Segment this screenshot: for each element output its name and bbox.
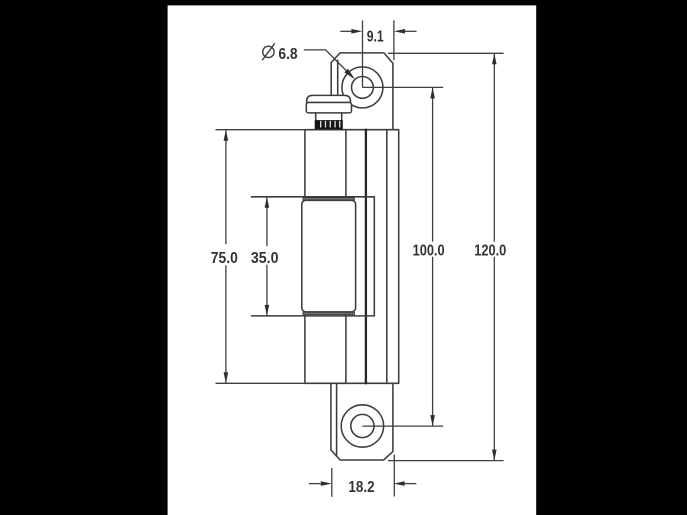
arrowhead 35.0 bottom xyxy=(265,305,270,316)
arrowhead 100.0 bottom xyxy=(430,415,435,426)
dim 9.1 right extension line xyxy=(393,20,395,60)
knob cap dome xyxy=(307,95,351,102)
arrowhead 75.0 bottom xyxy=(224,372,229,383)
top lug inner edge xyxy=(337,60,339,95)
arrowhead 120.0 bottom xyxy=(492,450,497,461)
arrowhead 75.0 top xyxy=(224,130,229,141)
bottom lug outline xyxy=(331,383,393,460)
svg-text:9.1: 9.1 xyxy=(367,28,384,45)
dim 120.0 bottom extension line xyxy=(388,460,504,462)
block bottom elastomer strip xyxy=(303,312,354,315)
plate dark edge line xyxy=(365,130,367,384)
dim 100.0 line xyxy=(432,87,434,426)
dim 120.0 top extension line xyxy=(388,52,504,54)
block top elastomer strip xyxy=(303,198,354,201)
middle block xyxy=(302,200,356,312)
dim 9.1 left arrow xyxy=(340,30,352,32)
block bottom edge with 35.0 extension xyxy=(252,315,375,317)
arrowhead 18.2 left xyxy=(321,481,332,486)
svg-text:6.8: 6.8 xyxy=(278,46,297,63)
knob neck left xyxy=(315,113,317,120)
plate fold line xyxy=(386,130,388,384)
leader line for diameter 6.8 xyxy=(304,50,353,78)
top lug outline xyxy=(331,53,393,130)
dim 75.0 bottom extension line xyxy=(216,382,305,384)
knob cap brim xyxy=(306,103,351,113)
knob neck right xyxy=(341,113,343,120)
dim 18.2 left extension line xyxy=(331,468,333,497)
arrowhead 18.2 right xyxy=(394,481,405,486)
top hole inner circle xyxy=(352,77,374,99)
svg-text:35.0: 35.0 xyxy=(251,250,279,267)
block top edge with 35.0 extension xyxy=(252,196,375,198)
dim 75.0 top extension line xyxy=(216,129,305,131)
bottom hole outer circle xyxy=(341,405,383,447)
arrowhead 9.1 left xyxy=(351,29,362,34)
cylinder right edge xyxy=(345,130,347,384)
diameter symbol circle xyxy=(263,46,274,57)
knurled adjuster ring xyxy=(315,120,343,129)
arrowhead 35.0 top xyxy=(265,197,270,208)
svg-text:75.0: 75.0 xyxy=(211,250,238,267)
dim 35.0 line xyxy=(266,197,268,316)
svg-text:18.2: 18.2 xyxy=(348,479,374,496)
block zone right edge xyxy=(373,197,375,316)
dim 100.0 top extension line xyxy=(362,86,443,88)
dim 9.1 left extension line xyxy=(362,20,364,87)
arrowhead 9.1 right xyxy=(394,29,405,34)
svg-text:100.0: 100.0 xyxy=(413,243,445,260)
main body plate outline xyxy=(305,130,399,384)
arrowhead 100.0 top xyxy=(430,87,435,98)
dim 18.2 left arrow shaft xyxy=(309,483,321,485)
diameter symbol slash xyxy=(262,43,275,60)
dim 120.0 line xyxy=(493,53,495,460)
bottom hole inner circle xyxy=(351,414,374,437)
bottom lug inner edge xyxy=(336,383,338,456)
dim 9.1 right arrow xyxy=(405,30,417,32)
top hole outer circle xyxy=(342,67,383,108)
dim 18.2 right extension line xyxy=(393,455,395,497)
arrowhead 120.0 top xyxy=(492,53,497,64)
white drawing page xyxy=(168,5,537,515)
dim 18.2 right arrow shaft xyxy=(405,483,417,485)
arrowhead leader 6.8 xyxy=(344,69,355,80)
dim 75.0 line xyxy=(225,130,227,384)
dim 100.0 bottom extension line xyxy=(362,425,443,427)
svg-text:120.0: 120.0 xyxy=(474,243,506,260)
